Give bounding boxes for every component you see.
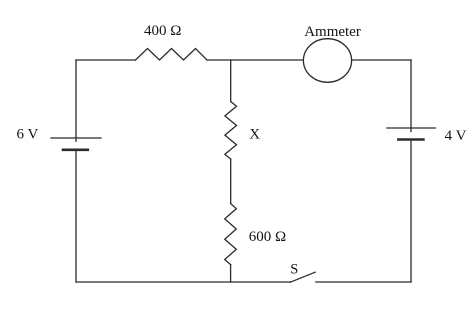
wire middle branch top xyxy=(230,60,232,102)
battery B2 4V negative plate xyxy=(398,138,423,141)
resistor R2 600 ohm zigzag xyxy=(225,204,237,265)
resistor X zigzag xyxy=(225,102,237,160)
wire bottom left segment xyxy=(76,281,291,283)
ammeter U1 circle xyxy=(303,39,351,83)
wire right lower xyxy=(410,141,412,282)
svg-text:4 V: 4 V xyxy=(445,128,467,144)
svg-text:S: S xyxy=(290,262,298,278)
wire bottom right segment xyxy=(316,281,411,283)
switch S blade xyxy=(290,272,315,282)
wire top middle segment xyxy=(207,59,303,61)
wire middle branch bottom xyxy=(230,265,232,282)
wire top-right segment xyxy=(352,59,411,61)
svg-text:400 Ω: 400 Ω xyxy=(144,23,181,39)
battery B2 4V positive plate xyxy=(387,127,436,129)
wire right upper xyxy=(410,60,412,132)
wire left lower xyxy=(75,151,77,282)
svg-text:600 Ω: 600 Ω xyxy=(249,229,286,245)
battery B1 6V negative plate xyxy=(63,149,88,152)
svg-text:6 V: 6 V xyxy=(17,127,39,143)
resistor R1 400 ohm zigzag xyxy=(136,49,208,61)
wire top-left segment xyxy=(76,59,136,61)
wire middle branch between resistors xyxy=(230,159,232,204)
svg-text:X: X xyxy=(249,127,260,143)
svg-text:Ammeter: Ammeter xyxy=(304,24,361,40)
battery B1 6V positive plate xyxy=(51,137,101,139)
wire left upper xyxy=(75,60,77,141)
